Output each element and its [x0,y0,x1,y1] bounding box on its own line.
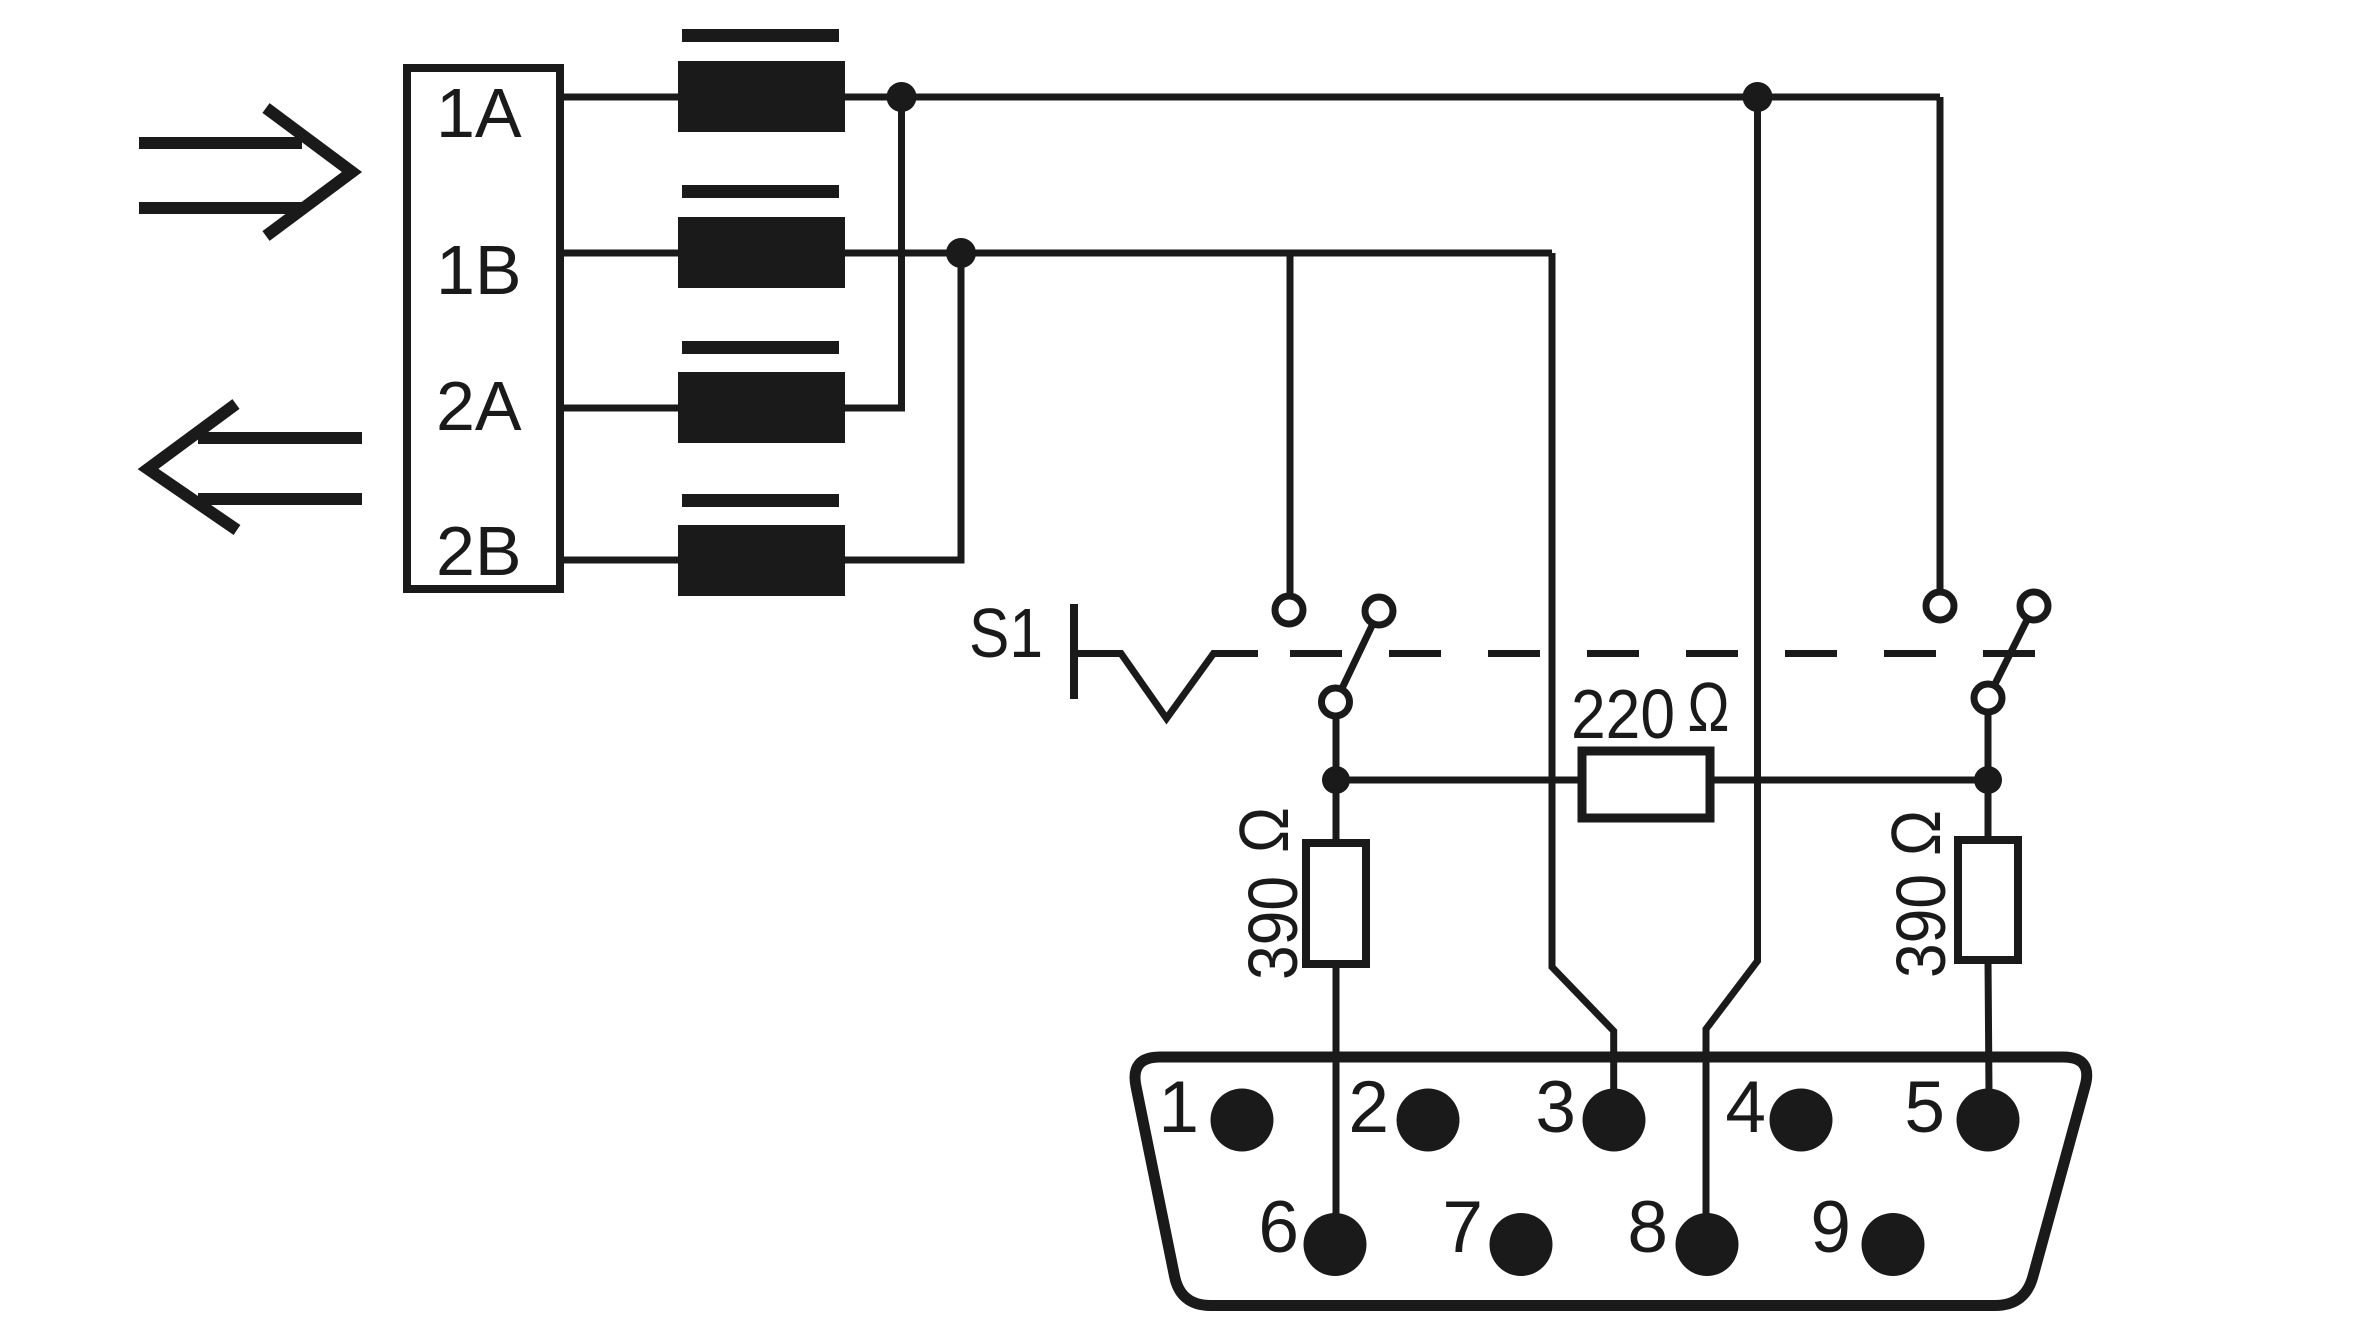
junction node on 1A line [1743,82,1773,112]
DB9 pin 4 [1770,1089,1833,1152]
svg-text:2: 2 [1348,1067,1389,1148]
svg-text:5: 5 [1904,1067,1945,1148]
switch S1 actuator bar [1070,604,1078,699]
switch S1 dashed linkage [1258,650,2052,657]
svg-text:220: 220 [1571,675,1675,753]
wire 2A box to choke [560,405,678,412]
junction node right termination [1974,766,2002,794]
svg-text:3: 3 [1535,1067,1576,1148]
resistor right 390 ohm [1958,840,2018,960]
svg-text:Ω: Ω [1877,810,1955,856]
svg-text:390: 390 [1882,874,1960,978]
wire: right switch pole to junction [1985,715,1992,780]
choke winding 2A [678,372,845,443]
svg-text:8: 8 [1627,1187,1668,1268]
wire: left switch pole to junction [1333,718,1340,780]
switch S1a upper-right contact [1365,597,1393,625]
switch S1b upper-right contact [2020,592,2048,620]
svg-text:7: 7 [1442,1187,1483,1268]
DB9 pin 2 [1397,1089,1460,1152]
junction node left termination [1322,766,1350,794]
wire: left 390 to pin 6 [1333,780,1340,843]
wire 1B choke to corner [845,250,1552,257]
wire: 1A junction drop to pin8 funnel [1706,97,1758,1216]
wire 1A box to choke [560,94,678,101]
DB9 pin 1 [1211,1089,1274,1152]
svg-text:390: 390 [1234,876,1312,980]
choke core bar 1 [682,29,839,42]
svg-text:4: 4 [1725,1067,1766,1148]
choke core bar 2 [682,185,839,198]
choke winding 1A [678,61,845,132]
wire: right 390 to pin 5 [1985,780,1992,840]
choke winding 1B [678,217,845,288]
wire 1B box to choke [560,250,678,257]
junction node 1B/2B [946,238,976,268]
wire: 1B line drop to left switch contact [1287,253,1294,593]
svg-text:1A: 1A [436,74,522,152]
DB9 pin 3 [1583,1089,1646,1152]
switch S1b lever [1988,606,2034,698]
terminal box [407,68,560,589]
svg-text:6: 6 [1258,1187,1299,1268]
svg-text:2A: 2A [436,367,522,445]
switch S1a upper-left contact [1275,596,1303,624]
DB9 pin 9 [1862,1213,1925,1276]
switch S1b pole contact [1974,684,2002,712]
resistor 220 ohm [1582,751,1710,818]
switch S1a pole contact [1322,688,1350,716]
junction node 1A/2A [887,82,917,112]
wire: vertical from 1A line down to right switch contact [1937,97,1944,589]
DB9 pin 8 [1676,1213,1739,1276]
resistor left 390 ohm [1306,843,1366,964]
svg-text:Ω: Ω [1688,668,1730,746]
svg-text:2B: 2B [436,512,522,590]
DB9 pin 5 [1957,1089,2020,1152]
wire: 1B drop to pin3 funnel [1552,253,1614,1092]
svg-text:S1: S1 [969,594,1043,672]
wire 1A choke to corner [845,94,1940,101]
wire 2B choke to junction [845,253,961,560]
choke core bar 4 [682,494,839,507]
svg-text:1: 1 [1158,1067,1199,1148]
DB9 pin 6 [1304,1213,1367,1276]
wire 2B box to choke [560,557,678,564]
choke winding 2B [678,525,845,596]
DB9 pin 7 [1490,1213,1553,1276]
svg-text:Ω: Ω [1225,807,1303,853]
choke core bar 3 [682,341,839,354]
wire: termination network horizontal [1336,777,1582,784]
svg-text:9: 9 [1810,1187,1851,1268]
DB9 connector shell [1135,1057,2087,1306]
output arrow (left-pointing, double shaft) [148,404,362,530]
svg-text:1B: 1B [436,231,522,309]
switch S1a lever [1336,611,1380,702]
switch S1b upper-left contact [1926,592,1954,620]
input arrow (right-pointing, double shaft) [139,108,352,236]
wire 2A choke to junction [845,97,902,408]
switch S1 linkage with kink [1074,654,1258,719]
